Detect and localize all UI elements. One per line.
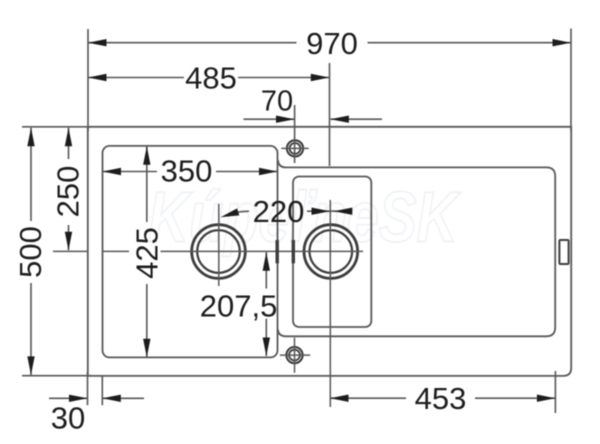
drain circle left inner [197,230,240,273]
sink outer edge [88,127,571,376]
extension line sink centre [329,63,331,166]
dim 500 line [30,128,32,375]
extension line bottom 453 right [554,371,556,413]
drain left centre line vertical [218,204,220,286]
svg-text:453: 453 [415,381,467,416]
bowl wall tick right [292,240,295,263]
dim 70 line [244,118,383,120]
svg-text:70: 70 [261,86,293,118]
extension line top-left horizontal [22,126,92,128]
dim 350 line [103,171,278,173]
tap hole bottom [286,347,302,363]
extension line tap top [294,105,296,163]
dim 220 line [238,210,352,213]
watermark KupelneSK [148,177,462,257]
svg-text:250: 250 [51,166,86,218]
svg-text:425: 425 [130,227,165,279]
tap hole top crosshair [281,147,308,149]
svg-text:350: 350 [161,154,213,189]
drain right centre line vertical [329,200,331,407]
drain circle left outer [192,225,246,279]
extension line right top [570,29,572,132]
svg-text:207,5: 207,5 [200,288,278,323]
overflow slot [559,240,568,264]
main bowl [103,146,278,358]
dim 30 line [49,397,144,399]
dim 250 line [68,128,70,251]
tap hole top [287,140,303,156]
half bowl [293,177,371,328]
extension line bottom-left horizontal [22,375,92,377]
dim 970 line [88,42,571,44]
drain circle right outer [304,225,358,279]
svg-text:30: 30 [51,401,85,436]
dim 425 line [146,146,148,357]
svg-text:970: 970 [306,26,358,61]
extension line bottom 30 left [87,372,89,405]
svg-text:220: 220 [253,194,305,229]
dim 453 line [330,397,555,399]
dim 485 line [88,77,329,79]
dim 207,5 line [265,252,267,356]
drainer ledge outline [278,160,555,336]
svg-text:500: 500 [13,226,48,278]
extension line left top [87,29,89,131]
svg-text:485: 485 [185,60,237,95]
extension line bottom 30 right [101,376,103,405]
bowl wall tick left [276,240,279,263]
drain centre line horizontal [53,250,363,252]
tap hole bottom crosshair [280,338,310,373]
drain circle right inner [310,230,353,273]
